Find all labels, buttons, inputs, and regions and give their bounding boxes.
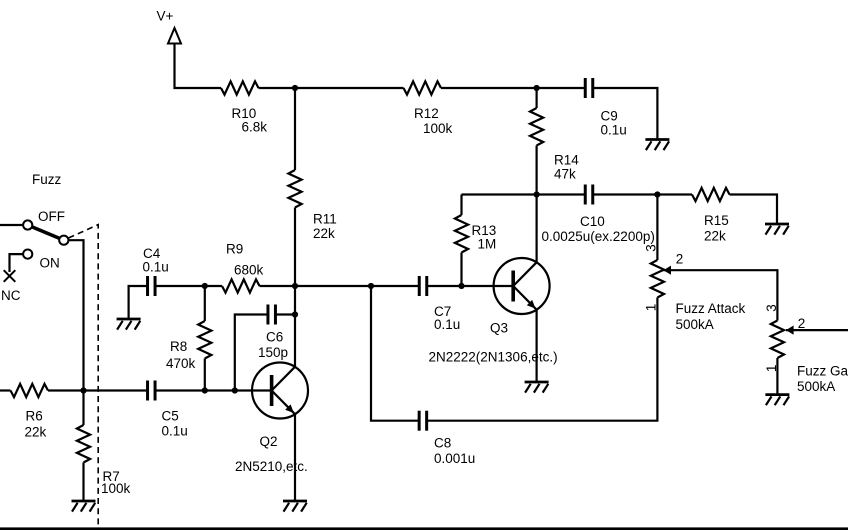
- wire node to C10: [537, 193, 586, 195]
- wire R11 to Q2 collector: [294, 208, 296, 368]
- FuzzGain wiper arrow: [786, 326, 794, 335]
- wire pole down to node: [68, 240, 83, 390]
- svg-text:R9: R9: [226, 242, 243, 257]
- svg-text:22k: 22k: [25, 425, 47, 440]
- svg-text:0.1u: 0.1u: [434, 317, 460, 332]
- switch lever: [30, 226, 61, 239]
- wire C4 ground stub: [129, 286, 148, 319]
- svg-text:100k: 100k: [423, 121, 453, 136]
- wire R7 top: [82, 391, 84, 426]
- node R10/R11/R12: [292, 85, 298, 91]
- wire R13 top to node: [462, 193, 537, 195]
- svg-text:0.1u: 0.1u: [143, 260, 169, 275]
- svg-text:100k: 100k: [101, 481, 131, 496]
- wire C4 to node: [155, 285, 205, 287]
- ground FuzzGain: [765, 393, 789, 396]
- svg-text:470k: 470k: [166, 356, 196, 371]
- wire C5 to Q2 base: [155, 389, 270, 391]
- ground Q2: [283, 500, 307, 503]
- svg-text:3: 3: [764, 304, 779, 312]
- wire R14 to node: [535, 146, 537, 195]
- wire node to R15: [657, 193, 692, 195]
- capacitor C9: [584, 78, 587, 98]
- wire ON stub: [10, 254, 24, 272]
- wire R10 to node: [259, 87, 296, 89]
- svg-text:1: 1: [644, 304, 659, 312]
- resistor R8: [198, 321, 211, 359]
- wire node to C7: [371, 285, 419, 287]
- svg-text:Q2: Q2: [260, 434, 278, 449]
- svg-text:C9: C9: [601, 109, 618, 124]
- svg-text:R11: R11: [313, 212, 337, 227]
- svg-text:OFF: OFF: [38, 209, 65, 224]
- node R9/R11: [292, 283, 298, 289]
- capacitor C10: [584, 185, 587, 205]
- potentiometer FuzzGain 500kA: [771, 321, 784, 359]
- svg-text:47k: 47k: [554, 167, 576, 182]
- node C7/C8 branch: [368, 283, 374, 289]
- bottom border line: [0, 527, 848, 530]
- resistor R11: [288, 170, 301, 208]
- svg-text:C10: C10: [580, 214, 605, 229]
- capacitor C5: [146, 381, 149, 401]
- resistor R12: [404, 81, 442, 94]
- wire Q3 collector: [535, 195, 537, 263]
- wire node to C9: [537, 87, 586, 89]
- wire R13 bottom: [460, 253, 462, 287]
- wire C6 left branch: [235, 315, 268, 391]
- svg-text:2N5210,etc.: 2N5210,etc.: [235, 459, 308, 474]
- wire node to R11: [294, 88, 296, 170]
- resistor R9: [222, 279, 260, 292]
- FuzzAttack wiper arrow: [663, 266, 671, 275]
- node C6/collector wire: [292, 311, 298, 317]
- svg-text:V+: V+: [157, 9, 174, 24]
- wire C9 to ground: [593, 88, 658, 140]
- svg-text:NC: NC: [1, 288, 21, 303]
- svg-text:500kA: 500kA: [797, 379, 835, 394]
- svg-text:Fuzz: Fuzz: [32, 172, 62, 187]
- wire R8 bottom: [204, 359, 206, 391]
- capacitor C7: [418, 276, 421, 296]
- wire node to R14: [535, 88, 537, 108]
- svg-text:0.1u: 0.1u: [162, 424, 188, 439]
- svg-text:0.1u: 0.1u: [601, 123, 627, 138]
- node R14/C10/Q3-collector: [534, 191, 540, 197]
- resistor R14: [530, 108, 543, 146]
- svg-text:R8: R8: [170, 339, 187, 354]
- resistor R6: [11, 384, 49, 397]
- switch terminal ON: [23, 250, 32, 259]
- svg-text:500kA: 500kA: [676, 317, 714, 332]
- wire node to C5: [84, 389, 148, 391]
- ground C9: [645, 138, 669, 141]
- svg-text:3: 3: [644, 244, 659, 252]
- wire C10 to node: [593, 193, 658, 195]
- resistor R15: [692, 188, 730, 201]
- svg-text:R6: R6: [26, 409, 43, 424]
- potentiometer FuzzAttack 500kA: [651, 260, 664, 298]
- svg-text:R12: R12: [414, 106, 439, 121]
- svg-text:2: 2: [798, 316, 806, 331]
- resistor R7: [77, 425, 90, 463]
- node C6 left branch: [232, 387, 238, 393]
- svg-text:R15: R15: [704, 213, 729, 228]
- capacitor C4: [146, 276, 149, 296]
- resistor R10: [221, 81, 259, 94]
- svg-text:1M: 1M: [478, 237, 497, 252]
- svg-text:C8: C8: [434, 436, 451, 451]
- wire C8 to FuzzAttack pin1: [427, 298, 658, 421]
- wire FuzzGain pin1 to ground: [776, 358, 778, 395]
- svg-text:150p: 150p: [258, 345, 288, 360]
- ground R7: [72, 500, 96, 503]
- wire input to OFF terminal: [0, 224, 24, 226]
- wire FuzzGain wiper to output: [786, 329, 848, 331]
- switch boundary dashed line: [69, 225, 99, 527]
- svg-text:Fuzz Gain: Fuzz Gain: [797, 364, 848, 379]
- svg-text:C5: C5: [162, 409, 179, 424]
- wire R7 to ground: [82, 463, 84, 502]
- wire node to R9: [205, 285, 222, 287]
- switch pole terminal: [59, 236, 68, 245]
- svg-text:R14: R14: [554, 153, 579, 168]
- ground R15: [765, 223, 789, 226]
- wire input left: [0, 389, 11, 391]
- wire V+ to rail: [175, 44, 222, 89]
- svg-text:22k: 22k: [313, 226, 335, 241]
- wire C7 to node: [427, 285, 462, 287]
- ground C4: [117, 318, 141, 321]
- ground Q3: [525, 381, 549, 384]
- switch terminal OFF: [23, 220, 32, 229]
- resistor R13: [455, 215, 468, 253]
- svg-text:ON: ON: [40, 256, 60, 271]
- svg-text:C6: C6: [266, 330, 283, 345]
- svg-text:Q3: Q3: [490, 321, 508, 336]
- wire R9 to node: [260, 285, 296, 287]
- wire R13 top: [460, 195, 462, 216]
- svg-text:680k: 680k: [234, 263, 264, 278]
- wire C6 right: [275, 313, 295, 315]
- transistor Q2: [252, 363, 308, 419]
- wire R6 to node: [48, 389, 84, 391]
- capacitor C6: [266, 305, 269, 325]
- node C7/R13/Q3-base: [458, 283, 464, 289]
- wire Q3 emitter to ground: [535, 310, 537, 382]
- wire node to Q3 base: [462, 285, 514, 287]
- node C10/R15/FuzzAttack: [654, 191, 660, 197]
- svg-text:0.0025u(ex.2200p): 0.0025u(ex.2200p): [542, 229, 655, 244]
- wire FuzzAttack wiper to FuzzGain pin3: [663, 270, 777, 320]
- wire R8 top: [204, 286, 206, 321]
- node R6/R7/switch: [80, 387, 86, 393]
- transistor Q3: [494, 258, 550, 314]
- node C4/R9/R8: [202, 283, 208, 289]
- wire node to node C7: [295, 285, 371, 287]
- svg-text:6.8k: 6.8k: [242, 120, 268, 135]
- svg-text:2: 2: [676, 252, 684, 267]
- wire node to R12: [295, 87, 404, 89]
- NC cross: [4, 270, 16, 282]
- node R12/R14/C9: [534, 85, 540, 91]
- wire C8 left branch: [371, 286, 419, 421]
- wire R15 to ground: [730, 195, 778, 225]
- svg-text:22k: 22k: [704, 229, 726, 244]
- wire R12 to node: [441, 87, 537, 89]
- node R8 bottom: [202, 387, 208, 393]
- svg-text:2N2222(2N1306,etc.): 2N2222(2N1306,etc.): [429, 350, 558, 365]
- wire node to FuzzAttack pin3: [656, 195, 658, 261]
- svg-text:0.001u: 0.001u: [434, 451, 475, 466]
- capacitor C8: [418, 411, 421, 431]
- wire Q2 emitter to ground: [294, 414, 296, 501]
- V+ power symbol: [168, 28, 181, 44]
- svg-text:Fuzz Attack: Fuzz Attack: [676, 301, 746, 316]
